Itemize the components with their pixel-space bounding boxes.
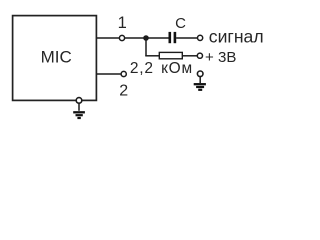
right ground symbol	[194, 77, 206, 90]
signal terminal circle	[198, 35, 203, 40]
pin 2 terminal circle	[121, 71, 126, 76]
+3V terminal circle	[197, 53, 202, 58]
svg-text:C: C	[175, 15, 186, 32]
capacitor C	[170, 15, 186, 43]
MIC ground terminal circle	[76, 98, 82, 104]
wire junction to capacitor	[146, 37, 169, 39]
svg-text:MIC: MIC	[41, 48, 72, 67]
MIC ground symbol	[73, 103, 85, 118]
svg-text:+ 3В: + 3В	[205, 49, 236, 66]
svg-text:сигнал: сигнал	[209, 26, 264, 46]
wire MIC pin2 to terminal circle	[97, 73, 121, 75]
right ground terminal circle	[197, 71, 203, 77]
svg-text:2: 2	[119, 83, 128, 100]
wire resistor to +3V terminal	[182, 55, 197, 57]
wire MIC pin1 to terminal circle	[97, 37, 120, 39]
junction node	[143, 35, 149, 41]
microphone MIC	[13, 16, 97, 101]
pin 1 terminal circle	[119, 35, 124, 40]
wire corner to resistor	[145, 55, 159, 57]
wire capacitor to signal terminal	[176, 37, 197, 39]
resistor 2,2 kOhm	[159, 52, 182, 58]
svg-text:1: 1	[118, 14, 127, 32]
wire pin1 circle to junction	[125, 37, 146, 39]
svg-text:2,2 кОм: 2,2 кОм	[130, 60, 193, 77]
wire junction down	[145, 38, 147, 56]
